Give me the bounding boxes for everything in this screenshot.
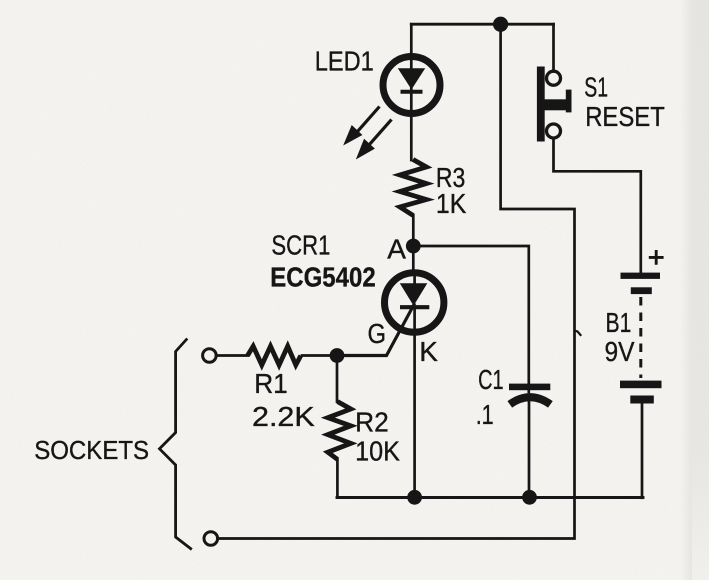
svg-text:9V: 9V bbox=[605, 336, 635, 367]
svg-text:10K: 10K bbox=[355, 436, 400, 467]
svg-text:RESET: RESET bbox=[585, 101, 665, 132]
svg-text:C1: C1 bbox=[478, 364, 503, 395]
svg-text:K: K bbox=[419, 336, 438, 367]
svg-text:G: G bbox=[368, 318, 387, 349]
svg-text:SOCKETS: SOCKETS bbox=[34, 435, 149, 465]
svg-text:.1: .1 bbox=[476, 399, 494, 430]
svg-text:A: A bbox=[387, 234, 406, 265]
svg-text:LED1: LED1 bbox=[315, 46, 374, 77]
svg-text:SCR1: SCR1 bbox=[271, 230, 330, 261]
svg-text:S1: S1 bbox=[584, 71, 608, 102]
svg-text:ECG5402: ECG5402 bbox=[270, 261, 375, 292]
svg-text:R2: R2 bbox=[355, 407, 389, 438]
svg-text:1K: 1K bbox=[436, 188, 467, 219]
svg-text:R1: R1 bbox=[254, 368, 288, 399]
svg-text:2.2K: 2.2K bbox=[252, 401, 315, 432]
svg-text:B1: B1 bbox=[606, 307, 632, 338]
